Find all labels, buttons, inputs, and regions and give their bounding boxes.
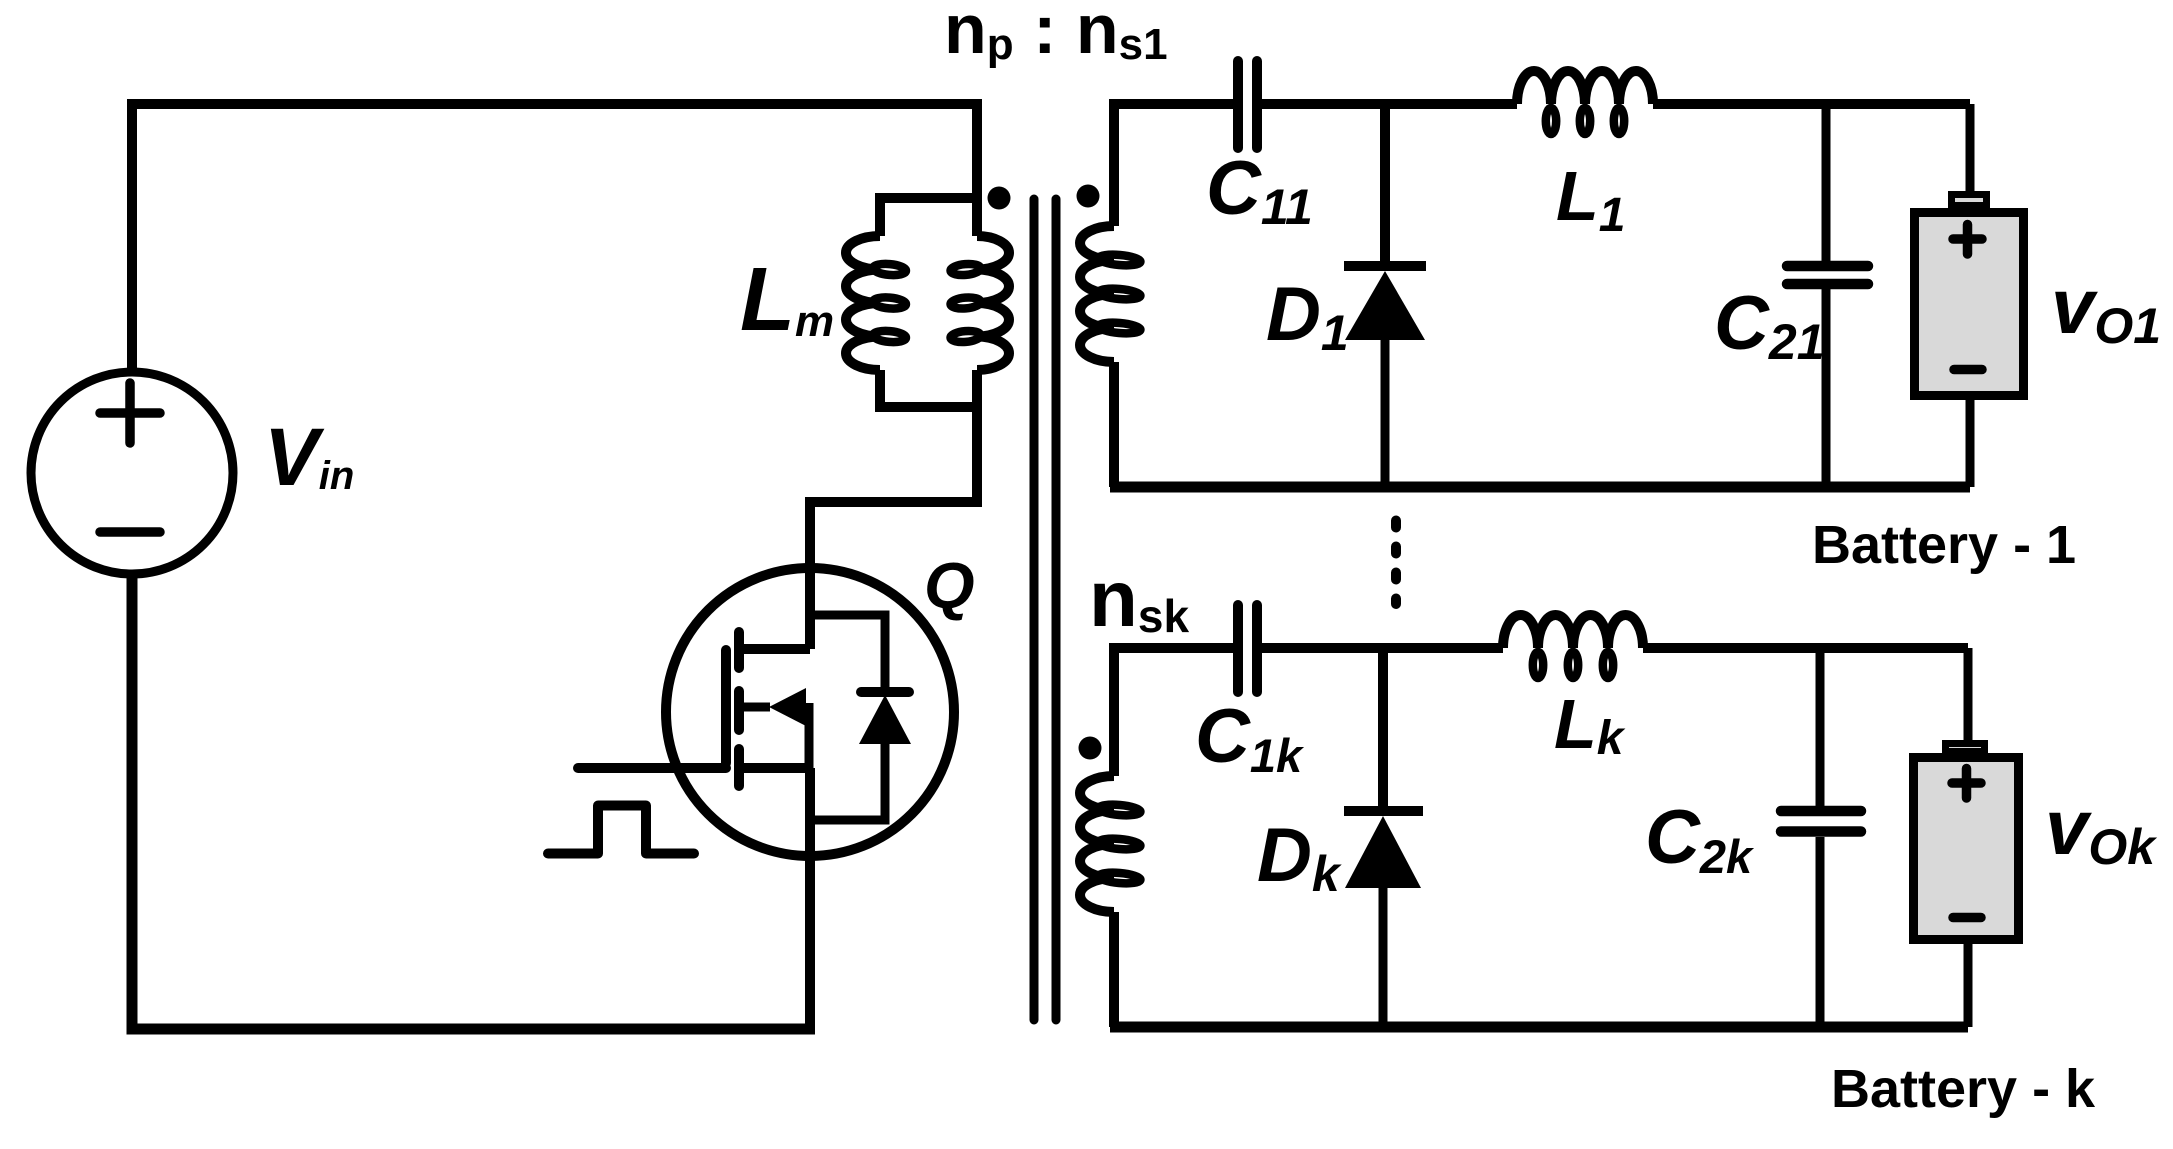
svg-text:Q: Q xyxy=(924,549,975,622)
transistor Q channel dashes xyxy=(734,632,744,786)
node primary dot xyxy=(988,187,1011,210)
wire node Dk branch xyxy=(1378,648,1388,807)
wire secondary-k left vertical xyxy=(1114,648,1233,776)
wire secondary-1 left vertical xyxy=(1114,104,1233,226)
wire Lm bottom stub xyxy=(880,370,977,407)
transformer core xyxy=(1034,199,1056,1020)
capacitor C21 xyxy=(1787,104,1868,487)
wire top rail C11 to L1 xyxy=(1262,99,1517,109)
capacitor C2k xyxy=(1781,648,1861,1027)
transformer primary winding np xyxy=(950,236,1009,370)
wire gate lead xyxy=(578,763,726,773)
inductor Lm coil xyxy=(846,236,906,370)
dotted continuation between outputs xyxy=(1391,521,1401,605)
svg-text:Battery - k: Battery - k xyxy=(1831,1059,2096,1119)
wire secondary-k bottom rail xyxy=(1110,1022,1968,1033)
node secondary-k dot xyxy=(1079,737,1102,760)
wire secondary-k coil to bottom rail xyxy=(1109,912,1119,1027)
wire source down to bottom rail xyxy=(805,768,815,1029)
diode D1 xyxy=(1344,266,1426,487)
wire Lm top stub xyxy=(880,198,977,236)
battery Battery-1 xyxy=(1915,104,2024,487)
node secondary-1 dot xyxy=(1077,185,1100,208)
wire from Vin minus to bottom rail to MOSFET source xyxy=(132,577,815,1029)
transformer secondary winding ns1 xyxy=(1080,226,1141,362)
wire primary bottom to MOSFET drain jog xyxy=(810,370,977,649)
transformer secondary winding nsk xyxy=(1080,776,1141,912)
wire top rail Lk to battery-k xyxy=(1643,643,1968,653)
wire drain connection xyxy=(739,644,810,654)
diode body diode of Q xyxy=(810,615,911,820)
battery Battery-k xyxy=(1914,648,2019,1027)
gate drive pulse symbol xyxy=(548,806,694,854)
capacitor C1k xyxy=(1238,605,1257,692)
transistor Q MOSFET circle xyxy=(666,568,954,856)
capacitor C11 xyxy=(1238,61,1257,148)
inductor Lk xyxy=(1503,615,1643,678)
transistor Q gate bar xyxy=(721,650,731,763)
svg-text:Battery - 1: Battery - 1 xyxy=(1812,515,2076,575)
wire secondary-1 coil to bottom rail xyxy=(1109,362,1119,487)
wire top rail L1 to battery-1 xyxy=(1653,99,1970,109)
wire top rail C1k to Lk xyxy=(1262,643,1503,653)
voltage source Vin xyxy=(31,372,233,574)
wire source connection xyxy=(739,763,810,773)
transistor Q body arrow xyxy=(741,688,809,768)
wire node D1 branch xyxy=(1380,104,1390,262)
wire secondary-1 bottom rail xyxy=(1110,482,1970,493)
diode Dk xyxy=(1344,811,1423,1027)
wire top rail from Vin to transformer primary xyxy=(132,104,977,372)
inductor L1 xyxy=(1517,71,1653,134)
